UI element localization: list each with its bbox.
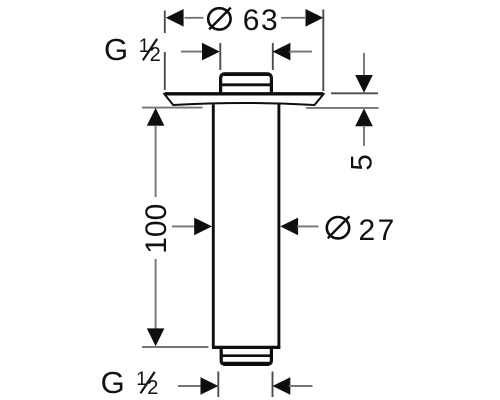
bottom G1/2 left extension line	[217, 372, 219, 398]
dim 100 top arrow	[147, 108, 165, 126]
svg-text:2: 2	[150, 44, 161, 66]
bottom thread G1/2	[221, 349, 271, 365]
dim Ø63 right leader	[281, 17, 305, 19]
svg-text:2: 2	[147, 377, 158, 399]
dim Ø63 right extension line	[322, 10, 324, 92]
svg-text:63: 63	[243, 4, 279, 37]
dim Ø27 label	[327, 216, 350, 238]
dim Ø27 right arrow	[280, 218, 298, 236]
bottom G1/2 right arrow	[273, 377, 291, 395]
dim 5 upper dimension line	[363, 53, 365, 76]
dim Ø63 right arrow	[306, 9, 324, 27]
bottom G1/2 right leader	[289, 385, 313, 387]
top G1/2 right arrow	[273, 43, 291, 61]
dim 100 bottom extension line	[142, 346, 209, 348]
dim 5 down arrow	[355, 75, 373, 93]
bottom G1/2 left arrow	[201, 377, 219, 395]
dim Ø27 right leader	[297, 225, 319, 227]
flange (escutcheon)	[165, 94, 324, 105]
svg-text:27: 27	[359, 214, 397, 247]
dim 100 bottom arrow	[147, 328, 165, 346]
svg-text:5: 5	[345, 154, 378, 170]
dim 5 bottom reference line (flange underside)	[306, 107, 379, 109]
bottom G1/2 left leader	[178, 385, 202, 387]
dim 5 up arrow	[355, 108, 373, 126]
dim Ø27 left arrow	[194, 218, 212, 236]
dim 5 top reference tick	[331, 92, 378, 94]
svg-text:G: G	[104, 32, 128, 67]
dim Ø63 left arrow	[166, 9, 184, 27]
dim 100 dimension line	[155, 125, 157, 329]
top G1/2 right extension line	[272, 43, 274, 70]
top G1/2 left extension line	[219, 43, 221, 70]
top thread nipple G1/2	[221, 74, 272, 95]
top G1/2 left arrow	[202, 43, 220, 61]
top G1/2 left leader	[181, 51, 203, 53]
top G1/2 right leader	[289, 51, 312, 53]
dim Ø63 left extension line	[164, 11, 166, 91]
svg-text:100: 100	[140, 204, 173, 254]
dim Ø27 left leader	[172, 225, 196, 227]
dim Ø63 label	[208, 8, 231, 30]
dim Ø63 left leader	[185, 17, 204, 19]
dim 100 top extension line	[142, 107, 203, 109]
dim 5 lower dimension line	[363, 126, 365, 146]
pipe body	[212, 105, 280, 348]
svg-text:G: G	[101, 365, 125, 400]
bottom G1/2 right extension line	[272, 372, 274, 398]
